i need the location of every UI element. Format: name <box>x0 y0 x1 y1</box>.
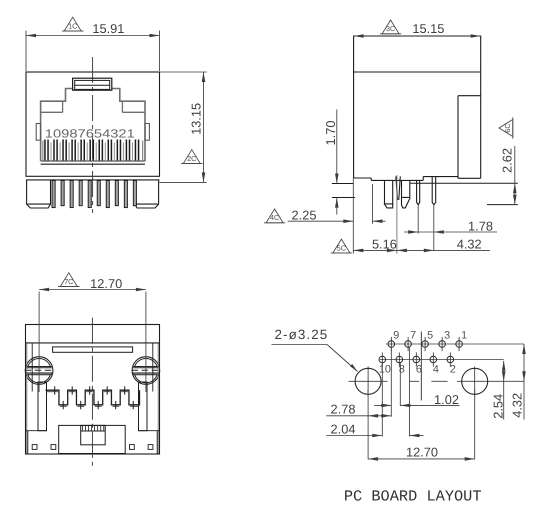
bottom view: right screw peg <box>25 357 53 385</box>
bottom view: bottom center housing <box>59 425 126 453</box>
svg-text:5: 5 <box>427 329 433 341</box>
front view: left shoulder step <box>41 111 63 113</box>
bottom view: inner housing box <box>81 425 106 444</box>
svg-text:PC BOARD LAYOUT: PC BOARD LAYOUT <box>344 488 482 506</box>
svg-text:1.78: 1.78 <box>468 218 493 233</box>
pcb layout: horizontal centerline <box>349 380 388 382</box>
svg-text:12.70: 12.70 <box>90 276 122 291</box>
svg-text:2.54: 2.54 <box>491 394 506 419</box>
side view: plastic post B <box>402 180 410 208</box>
dimension 1.02: dimension line <box>374 404 391 406</box>
front view: vertical centerline <box>92 57 94 213</box>
front view: left side tab <box>36 124 40 141</box>
dimension 2.25: dimension line <box>288 220 354 222</box>
pcb layout: mounting hole left <box>355 368 381 394</box>
svg-text:10987654321: 10987654321 <box>45 126 135 140</box>
dimension 15.15: arrows on top edge <box>354 34 364 38</box>
side view: board lock block <box>458 95 481 97</box>
pcb layout: row line pins 1-9 <box>386 343 524 345</box>
bottom view: latch window bar <box>53 347 133 352</box>
revision triangle 2C <box>181 150 202 164</box>
dimension 12.70 bottom view: extension lines <box>38 292 40 393</box>
front view: outer body <box>26 72 160 176</box>
svg-text:1.70: 1.70 <box>323 121 338 146</box>
revision triangle 5C <box>331 239 352 253</box>
bottom view: outer body <box>26 325 160 455</box>
bottom view: top inner line <box>26 342 160 344</box>
svg-text:9: 9 <box>393 329 399 341</box>
bottom view: inner side walls <box>26 343 28 453</box>
pcb layout: hole pin 4 <box>430 356 437 363</box>
front view: 10 solder tails <box>52 181 55 208</box>
front view: latch slot mid line <box>75 84 110 86</box>
pcb layout: hole pin 7 <box>405 341 412 348</box>
svg-text:1C: 1C <box>68 21 77 30</box>
side view: pin tip reference line <box>487 204 518 206</box>
dimension 13.15: extension lines <box>160 71 207 73</box>
pcb layout: hole pin 9 <box>388 341 395 348</box>
front view: 11 contact slot walls <box>44 140 46 161</box>
svg-text:12.70: 12.70 <box>406 445 438 460</box>
pcb layout: pin extension lines <box>367 389 369 459</box>
svg-text:4: 4 <box>433 364 439 376</box>
svg-text:2.62: 2.62 <box>500 148 515 173</box>
svg-text:6C: 6C <box>503 123 512 132</box>
front view: opening bottom edge <box>41 160 145 162</box>
revision triangle 1C <box>62 17 83 31</box>
svg-text:8: 8 <box>399 364 405 376</box>
front view: right side tab <box>145 124 149 141</box>
dimension 12.70 pcb: dimension line <box>368 458 475 460</box>
svg-text:2.04: 2.04 <box>331 421 356 436</box>
front view: plug latch slot inner <box>75 80 110 89</box>
dimension 4.32: dimension line <box>523 344 525 420</box>
bottom view: zigzag flat double lines <box>46 391 58 393</box>
bottom view: contact zigzag <box>45 390 139 405</box>
svg-text:7: 7 <box>410 329 416 341</box>
svg-text:13.15: 13.15 <box>189 103 204 135</box>
front view: right mounting post <box>135 180 159 208</box>
svg-text:2: 2 <box>450 364 456 376</box>
bottom view: lower shelf lines <box>26 430 47 432</box>
front view: opening inner wall lines <box>42 141 44 162</box>
revision triangle 3C <box>380 20 401 34</box>
revision triangle 7C <box>58 273 79 287</box>
dimension 2.78: dimension line <box>326 415 391 417</box>
svg-text:5C: 5C <box>337 243 346 252</box>
front view: plug latch slot outer <box>73 78 112 90</box>
dimension 15.91: dimension line <box>26 35 160 37</box>
side view: contact center extension line <box>396 175 398 254</box>
svg-text:4.32: 4.32 <box>510 393 525 418</box>
pcb layout: hole pin 3 <box>439 341 446 348</box>
side view: body left edge extension line <box>352 178 354 254</box>
pcb layout: hole pin 5 <box>422 341 429 348</box>
bottom view: corner pads <box>32 445 37 450</box>
pcb layout: hole pin 6 <box>413 356 420 363</box>
revision triangle 6C rotated <box>499 117 513 138</box>
side view: body outline <box>354 36 481 178</box>
front view: left mounting post <box>27 180 51 208</box>
dimension 5.16 and 4.32: chained dimension line <box>353 249 490 251</box>
pcb layout: hole pin 10 <box>379 356 386 363</box>
bottom view: left leg <box>38 382 47 431</box>
svg-text:2.78: 2.78 <box>331 402 356 417</box>
svg-text:1: 1 <box>461 329 467 341</box>
pcb layout: hole pin 8 <box>396 356 403 363</box>
dimension 2.04: dimension line <box>326 435 382 437</box>
svg-text:5.16: 5.16 <box>372 237 397 252</box>
pcb layout: row line pins 2-10 <box>380 359 504 361</box>
svg-text:3C: 3C <box>386 24 395 33</box>
svg-text:4C: 4C <box>270 213 279 222</box>
dimension 13.15: dimension line <box>203 72 205 182</box>
dimension 2.25: extension line <box>372 184 374 224</box>
side view: front face line <box>354 71 481 73</box>
svg-text:10: 10 <box>379 364 391 376</box>
svg-text:15.91: 15.91 <box>92 21 124 36</box>
side view: PCB top surface line <box>410 182 518 184</box>
front view: jack opening outline <box>41 89 73 162</box>
side view: solder pin 2 <box>432 177 436 205</box>
pcb layout: hole pin 2 <box>447 356 454 363</box>
front view: right shoulder step <box>122 111 145 113</box>
side view: bottom contour <box>354 177 372 179</box>
dimension 12.70 bottom view: dimension line <box>39 289 146 291</box>
dimension 2.54: dimension line <box>503 361 505 420</box>
dimension 1.78: extension lines <box>417 206 419 234</box>
pcb layout: hole pin 1 <box>456 341 463 348</box>
svg-text:2C: 2C <box>187 154 196 163</box>
side view: solder pin 1 <box>417 180 420 204</box>
front view: 10 contact wires <box>50 143 52 161</box>
bottom view: zigzag tick marks <box>54 386 56 394</box>
dimension 15.91: extension lines <box>25 31 27 72</box>
side view: left PCB stub lines <box>332 183 354 185</box>
svg-text:2-ø3.25: 2-ø3.25 <box>274 327 328 342</box>
revision triangle 4C <box>264 209 285 223</box>
dimension 1.78: dimension line <box>404 231 497 233</box>
bottom view: vertical centerline <box>91 318 93 467</box>
svg-text:2.25: 2.25 <box>292 208 317 223</box>
dimension 1.70: dimension line and arrows <box>336 109 338 183</box>
pcb layout: mounting hole right <box>462 368 488 394</box>
svg-text:4.32: 4.32 <box>457 237 482 252</box>
bottom view: right leg <box>139 382 148 431</box>
svg-text:3: 3 <box>444 329 450 341</box>
side view: plastic post A <box>385 180 393 208</box>
side view: center contact spike <box>396 176 400 199</box>
svg-text:1.02: 1.02 <box>434 392 459 407</box>
front view: bottom flange line <box>26 179 160 181</box>
svg-text:15.15: 15.15 <box>412 21 444 36</box>
dimension 2.62: dimension line <box>514 146 516 205</box>
svg-text:7C: 7C <box>64 277 73 286</box>
